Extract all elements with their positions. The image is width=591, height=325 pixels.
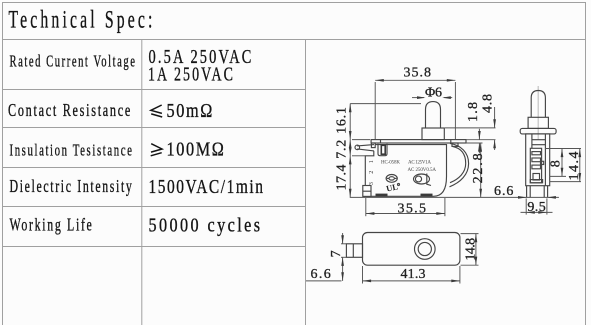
- dimension 1.8 (flange thickness): [466, 101, 481, 153]
- svg-text:3: 3: [368, 182, 375, 185]
- svg-text:7.2: 7.2: [335, 139, 350, 159]
- svg-text:1: 1: [368, 160, 375, 163]
- dimension 6.6 (gap to side view): [494, 184, 556, 199]
- less-than-or-equal symbol (slanted double bar): [151, 105, 162, 117]
- flange left tab: [371, 143, 375, 148]
- svg-text:50000 cycles: 50000 cycles: [149, 215, 263, 237]
- svg-text:8: 8: [549, 159, 564, 167]
- svg-text:41.3: 41.3: [401, 267, 427, 282]
- svg-text:AC 125V1A: AC 125V1A: [408, 161, 431, 166]
- side view: legs: [527, 186, 548, 198]
- dimension 35.5 (body width): [366, 198, 445, 216]
- front view: UL recognized mark: [385, 181, 399, 193]
- outer frame right border: [585, 2, 587, 325]
- side view: plunger: [531, 91, 545, 118]
- side view: flange (edge-on): [520, 128, 556, 134]
- outer frame top border: [2, 2, 586, 4]
- svg-text:Φ6: Φ6: [425, 86, 443, 101]
- spec table right border: [305, 40, 307, 325]
- left stacked dimension line 16.1 / 7.2 / 17.4: [335, 104, 371, 198]
- svg-text:1500VAC/1min: 1500VAC/1min: [149, 176, 265, 198]
- flange right tab: [452, 143, 458, 146]
- dimension 9.5 (legs span): [521, 198, 553, 215]
- svg-text:1A 250VAC: 1A 250VAC: [148, 64, 235, 86]
- front view: terminal prong: [355, 145, 374, 151]
- dimension 14.8 (bottom body width): [461, 234, 479, 266]
- bottom view: body outline: [363, 233, 460, 266]
- front view: plunger collar: [422, 128, 444, 140]
- front view: body outline: [371, 145, 447, 197]
- front view: rivet bracket top-left: [378, 144, 387, 156]
- flange mounting hole marks: [380, 140, 382, 143]
- svg-text:4.8: 4.8: [480, 93, 495, 113]
- svg-text:2: 2: [368, 171, 375, 174]
- dimension 41.3 (bottom body length): [363, 266, 460, 284]
- side view: body: [526, 134, 550, 186]
- side view: terminal stack bracket: [530, 148, 543, 183]
- svg-text:Rated Current Voltage: Rated Current Voltage: [10, 52, 137, 71]
- bottom view: push button ring inner: [418, 242, 431, 255]
- header row underline: [2, 39, 586, 41]
- side view: centerline: [537, 86, 539, 140]
- svg-text:1.8: 1.8: [466, 101, 481, 122]
- baseline datum line: [350, 196, 559, 198]
- svg-text:35.5: 35.5: [398, 201, 428, 216]
- svg-text:Contact Resistance: Contact Resistance: [8, 100, 132, 120]
- right extension lines: [445, 128, 496, 143]
- dimension 7 (prong width): [329, 233, 346, 281]
- svg-text:14.4: 14.4: [567, 151, 582, 181]
- dimension 8 (inner stack): [545, 149, 581, 177]
- dimension 22.8 (body height): [471, 143, 486, 197]
- svg-text:22.8: 22.8: [471, 152, 486, 183]
- spec table column divider: [141, 40, 143, 325]
- svg-text:Dielectric Intensity: Dielectric Intensity: [10, 176, 134, 196]
- bottom view: push button ring outer: [415, 239, 436, 260]
- front view: oval certification logo: [386, 175, 397, 183]
- svg-text:AC 250V0.5A: AC 250V0.5A: [408, 168, 437, 173]
- svg-text:HC-058K: HC-058K: [381, 160, 400, 165]
- svg-text:35.8: 35.8: [404, 65, 433, 80]
- dimension 4.8 (collar height): [480, 93, 496, 150]
- svg-text:17.4: 17.4: [335, 164, 350, 191]
- svg-text:Insulation Tesistance: Insulation Tesistance: [10, 140, 134, 159]
- front view: bottom-left foot: [363, 186, 371, 197]
- svg-text:16.1: 16.1: [335, 106, 350, 134]
- greater-than-or-equal symbol (slanted double bar): [151, 144, 162, 156]
- side view: collar: [528, 117, 548, 128]
- bottom view: terminal prong: [346, 244, 362, 257]
- front view: mounting flange: [371, 140, 466, 148]
- svg-text:50mΩ: 50mΩ: [167, 100, 215, 122]
- dimension 6.6 (prong protrusion): [306, 267, 342, 282]
- svg-text:100MΩ: 100MΩ: [167, 139, 226, 161]
- dimension 14.4 (side body height): [550, 149, 582, 182]
- table text labels and values: [8, 46, 265, 237]
- dimension Phi6 plunger: [412, 86, 452, 101]
- svg-text:9.5: 9.5: [527, 200, 546, 215]
- front view: cord/wire loop right: [450, 143, 469, 186]
- svg-text:Technical Spec:: Technical Spec:: [9, 7, 156, 34]
- front view: body left edge: [365, 151, 374, 186]
- svg-text:7: 7: [329, 249, 344, 257]
- front view: plunger dome: [426, 102, 441, 128]
- dimension 35.8 top: [375, 65, 455, 139]
- side view: inner walls: [532, 134, 546, 186]
- svg-text:6.6: 6.6: [494, 184, 514, 199]
- outer frame left border: [2, 2, 4, 325]
- svg-text:14.8: 14.8: [463, 237, 478, 261]
- plunger top extension line: [350, 103, 421, 105]
- svg-text:6.6: 6.6: [311, 267, 332, 282]
- front view: CCC certification logo: [414, 174, 432, 186]
- svg-text:UL: UL: [385, 181, 399, 193]
- front view: bottom terminals (feet): [376, 194, 433, 197]
- svg-text:Working Life: Working Life: [10, 215, 94, 235]
- spec table row lines: [2, 90, 306, 247]
